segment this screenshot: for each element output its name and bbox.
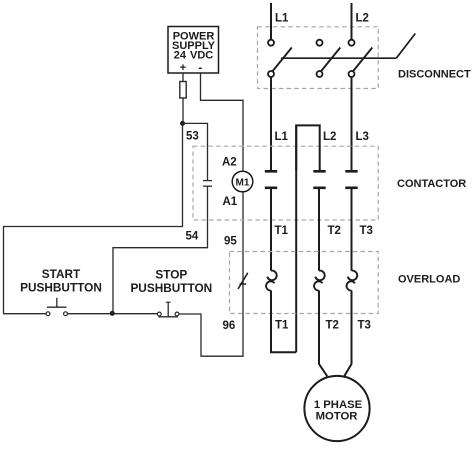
- wire disconnect pole1 to contactor L1: [270, 77, 272, 170]
- overload heater 2: [314, 271, 325, 291]
- svg-text:L2: L2: [356, 13, 369, 25]
- wire contactor T3 to overload heater 3: [351, 189, 353, 271]
- disconnect handle: [396, 34, 415, 59]
- svg-text:L1: L1: [275, 13, 289, 25]
- svg-text:53: 53: [186, 131, 199, 143]
- node 53 junction dot: [180, 121, 185, 126]
- wire L2 supply feed: [351, 3, 353, 40]
- svg-text:T3: T3: [358, 320, 371, 332]
- overload heater 1: [266, 271, 277, 291]
- svg-text:CONTACTOR: CONTACTOR: [397, 178, 466, 190]
- svg-text:T2: T2: [328, 225, 341, 237]
- wire contactor T1 to overload heater 1: [270, 189, 272, 271]
- svg-text:OVERLOAD: OVERLOAD: [398, 274, 460, 286]
- fuse F1: [180, 82, 186, 99]
- wire L1 supply feed: [270, 3, 272, 40]
- svg-text:96: 96: [223, 320, 236, 332]
- svg-text:MOTOR: MOTOR: [316, 410, 358, 422]
- wire overload T3 to motor: [344, 291, 351, 377]
- bypass wire T1 back up to contactor L2 (long vertical): [295, 125, 297, 352]
- svg-text:T1: T1: [275, 225, 289, 237]
- wire stop pushbutton to overload contact 96: [179, 291, 243, 356]
- svg-text:T1: T1: [275, 320, 289, 332]
- disconnect linkage bar: [281, 57, 396, 59]
- jumper wire contactor L2 to bypass (inverted U): [296, 125, 320, 170]
- overload enclosure (dashed): [230, 252, 379, 314]
- svg-text:1 PHASE: 1 PHASE: [314, 399, 363, 411]
- disconnect pole 2: [317, 40, 341, 77]
- wire start pushbutton to junction: [68, 313, 112, 315]
- svg-text:PUSHBUTTON: PUSHBUTTON: [20, 281, 102, 295]
- svg-text:54: 54: [186, 231, 199, 243]
- svg-text:PUSHBUTTON: PUSHBUTTON: [130, 281, 212, 295]
- wire overload T2 to motor: [319, 291, 327, 377]
- power supply PS1: [168, 27, 219, 75]
- start pushbutton: [20, 267, 102, 316]
- motor M: [304, 376, 369, 441]
- coil M1: [232, 171, 253, 192]
- disconnect enclosure (dashed): [258, 27, 379, 89]
- contactor enclosure (dashed): [193, 146, 378, 220]
- wire contactor T2 to overload heater 2: [318, 189, 320, 271]
- stop pushbutton: [130, 267, 212, 317]
- wire overload contact to coil M1 (A1): [242, 192, 244, 274]
- contactor pole L2-T2 contact: [313, 171, 325, 188]
- contactor pole L1-T1 contact: [265, 171, 277, 188]
- svg-text:95: 95: [224, 236, 237, 248]
- svg-text:A1: A1: [223, 196, 238, 208]
- wire overload T1 down and U-turn to bypass: [271, 291, 296, 353]
- wire from node 53 left/down to start pushbutton: [4, 123, 183, 313]
- wire junction to stop pushbutton: [112, 313, 157, 315]
- svg-text:24 VDC: 24 VDC: [174, 49, 213, 61]
- svg-text:-: -: [198, 62, 202, 74]
- aux contact M1 (53-54) seal-in branch: [113, 123, 212, 313]
- svg-text:+: +: [180, 62, 186, 74]
- svg-text:A2: A2: [222, 157, 237, 169]
- junction node (start/aux/stop): [110, 311, 115, 316]
- svg-text:START: START: [42, 267, 81, 281]
- wire coil M1 (A2) to PS - terminal: [201, 73, 244, 171]
- disconnect pole 3: [349, 40, 373, 77]
- overload trip contact (95-96): [238, 273, 248, 291]
- disconnect pole 1: [268, 40, 292, 77]
- overload heater 3: [347, 271, 358, 291]
- wire from fuse to node 53: [182, 98, 184, 123]
- svg-text:DISCONNECT: DISCONNECT: [398, 69, 471, 81]
- svg-text:L3: L3: [356, 131, 369, 143]
- svg-text:L1: L1: [275, 131, 289, 143]
- svg-text:M1: M1: [236, 178, 250, 189]
- svg-text:L2: L2: [323, 131, 336, 143]
- contactor pole L3-T3 contact: [345, 171, 357, 188]
- wire from PS + terminal to fuse: [182, 73, 184, 82]
- wire disconnect pole3 to contactor L3: [351, 77, 353, 170]
- svg-text:STOP: STOP: [155, 267, 187, 281]
- svg-text:T3: T3: [360, 225, 373, 237]
- svg-text:T2: T2: [326, 320, 339, 332]
